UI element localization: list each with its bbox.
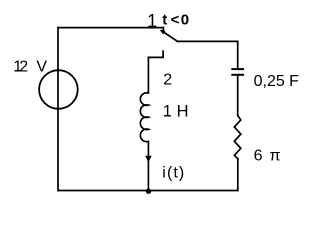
svg-text:2: 2: [163, 71, 172, 88]
svg-text:<: <: [171, 12, 180, 29]
svg-text:2: 2: [19, 58, 28, 75]
svg-text:t: t: [162, 12, 167, 29]
svg-text:H: H: [177, 102, 189, 120]
svg-text:i(t): i(t): [162, 164, 185, 181]
svg-text:1: 1: [163, 102, 172, 120]
svg-text:0: 0: [181, 12, 189, 29]
svg-text:0,25 F: 0,25 F: [254, 73, 300, 90]
svg-text:6 π: 6 π: [254, 148, 282, 165]
svg-text:V: V: [36, 58, 47, 75]
svg-text:1: 1: [147, 11, 157, 31]
